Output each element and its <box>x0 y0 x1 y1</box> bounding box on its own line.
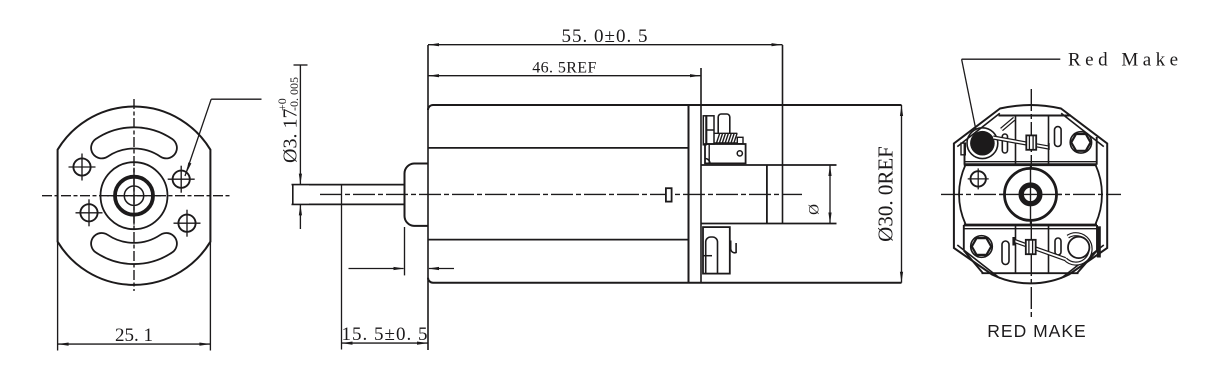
bottom brush divider <box>703 255 712 257</box>
screw hole marker <box>968 168 989 189</box>
key mark on centerline <box>666 188 672 201</box>
mounting hole H2 <box>168 166 195 193</box>
bottom brush wire and loop <box>1014 234 1091 263</box>
endbell seam line <box>688 105 690 283</box>
bottom-right crimp tab (dark) <box>1097 226 1101 257</box>
rear boss step <box>766 165 768 224</box>
rear boss diameter dim <box>828 165 831 224</box>
top-left crimp tab <box>961 143 965 155</box>
svg-text:Ø30. 0REF: Ø30. 0REF <box>874 146 898 242</box>
red terminal (black disc) <box>967 128 998 159</box>
svg-text:Ø3. 17: Ø3. 17 <box>280 109 302 163</box>
svg-text:15. 5±0. 5: 15. 5±0. 5 <box>342 324 429 345</box>
rear boss top edge + extension <box>701 164 837 166</box>
shaft <box>292 185 405 205</box>
mounting hole H4 <box>174 210 201 237</box>
endbell flange line + 46.5 extension <box>700 68 702 283</box>
rear view centerline vertical <box>1030 89 1032 320</box>
RED MAKE label <box>987 321 1086 341</box>
front center cross <box>107 168 161 225</box>
dimension text 46.5REF <box>532 60 597 77</box>
rear boss dia symbol <box>807 204 823 215</box>
dimension text 25.1 <box>115 325 153 346</box>
hub extension line <box>404 227 406 275</box>
rear middle circle (clipped by cards) <box>959 165 1102 224</box>
dimension 25.1 line <box>58 343 211 346</box>
dimension text dia 3.17 (rotated) <box>275 77 302 163</box>
top brush card <box>964 116 1097 165</box>
dimension 55.0+-0.5 line <box>428 43 783 46</box>
bottom brush housing <box>703 227 730 274</box>
front view centerline horizontal <box>42 195 232 197</box>
brush spring (coil hatching) <box>714 133 737 143</box>
top brush box <box>1026 135 1036 149</box>
motor body outline <box>428 105 902 283</box>
top brush wire <box>993 138 1049 151</box>
side view centerline <box>320 193 802 195</box>
top kidney slot <box>102 138 167 148</box>
front bearing boss circle <box>101 162 168 229</box>
svg-text:RED MAKE: RED MAKE <box>987 321 1086 341</box>
bottom hex nut <box>971 236 993 258</box>
mounting hole H1 <box>69 154 96 181</box>
rear endbell outline <box>954 105 1107 283</box>
hub length dim arrows <box>349 267 455 270</box>
front bearing ring (thick) <box>115 177 153 215</box>
rear shaft ring (thick annulus) <box>1021 185 1040 204</box>
dimension text 55.0+-0.5 <box>562 26 649 47</box>
dimension text 15.5+-0.5 <box>342 324 429 345</box>
rear boss bottom edge + extension <box>701 223 837 225</box>
bottom terminal hook <box>731 241 736 253</box>
top oval slot right <box>1055 127 1062 147</box>
leader line to mounting hole <box>185 99 262 176</box>
svg-text:-0. 005: -0. 005 <box>287 77 301 111</box>
front bearing hub <box>405 164 429 226</box>
Red Make label <box>1068 50 1183 71</box>
Red Make leader <box>962 59 1061 130</box>
front shaft hole circle <box>124 186 143 205</box>
dimension 25.1 extension lines <box>58 241 211 351</box>
stator liner bottom edge <box>428 239 689 241</box>
brush terminal bar B <box>707 116 714 144</box>
bottom oval slot left <box>1002 241 1009 265</box>
svg-text:55. 0±0. 5: 55. 0±0. 5 <box>562 26 649 47</box>
shaft step + 15.5 extension line <box>341 185 343 350</box>
shaft diameter dim line <box>294 65 308 229</box>
mounting hole H3 <box>76 199 103 226</box>
svg-text:25. 1: 25. 1 <box>115 325 153 346</box>
bottom oval slot right <box>1055 238 1061 255</box>
dimension 15.5+-0.5 line <box>342 342 429 345</box>
svg-text:Red Make: Red Make <box>1068 50 1183 71</box>
svg-text:46. 5REF: 46. 5REF <box>532 60 597 77</box>
brush terminal bar A <box>703 116 706 145</box>
body front face / extension line <box>427 45 429 350</box>
rear rim inner chamfer lines <box>957 113 1104 278</box>
top oval slot left <box>1002 134 1007 153</box>
stator liner top edge <box>428 147 689 149</box>
bottom kidney slot <box>102 244 167 254</box>
spring block D <box>737 137 743 143</box>
dimension dia 30.0REF line <box>900 105 903 283</box>
front view centerline vertical <box>133 99 135 291</box>
bottom brush inner bar <box>706 237 718 274</box>
dimension text dia 30.0REF (rotated) <box>874 146 898 242</box>
brush post C <box>718 114 730 134</box>
bottom brush card <box>964 225 1097 273</box>
center column <box>1016 116 1049 274</box>
rear view centerline horizontal <box>941 193 1121 195</box>
svg-text:Ø: Ø <box>807 204 823 215</box>
top wire anchor tab <box>1002 119 1015 130</box>
rear center cross <box>1000 164 1062 226</box>
motor front face outline (circle with side flats) <box>58 107 211 285</box>
dimension 46.5REF line <box>428 74 701 77</box>
rear bearing boss (thick circle) <box>1005 168 1057 220</box>
brush housing E <box>705 144 746 163</box>
top hex nut <box>1070 132 1091 153</box>
rear cap right edge + 55.0 extension <box>782 45 784 224</box>
bottom loop inner circle <box>1068 237 1089 258</box>
bottom brush box <box>1026 240 1036 254</box>
